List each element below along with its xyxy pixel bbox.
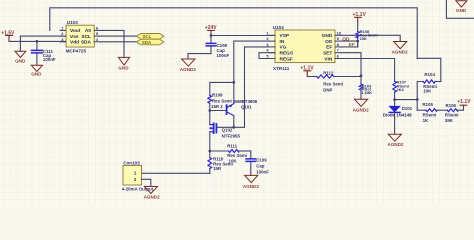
wire: +24V to U104 VSP pin1 <box>211 35 275 37</box>
wire: REGS/REGF tied <box>259 53 275 59</box>
wire: U104 IN pin2 down to Q101 emitter <box>234 41 269 104</box>
port SDA <box>137 39 165 45</box>
svg-text:NTF2955: NTF2955 <box>222 133 241 138</box>
wire: SDA pin4 to port <box>100 41 136 43</box>
svg-text:100nF: 100nF <box>43 57 56 62</box>
power port +1.1V (above R108) <box>353 12 367 21</box>
svg-text:GND: GND <box>15 58 26 63</box>
wire: U104 VG pin3 down to Q102 gate <box>216 47 269 127</box>
svg-text:Con103: Con103 <box>123 161 140 166</box>
junction IN/R109 <box>232 81 235 84</box>
wire: U103 Vout pin1 up and across top to right network <box>50 8 417 59</box>
svg-text:MCP4725: MCP4725 <box>66 49 87 54</box>
svg-text:Res Semi: Res Semi <box>323 82 343 87</box>
svg-text:100nF: 100nF <box>217 53 230 58</box>
wire: Q102 source from R109 node <box>209 111 211 125</box>
svg-text:VIN: VIN <box>324 56 333 62</box>
junction main chain at feedback <box>416 98 419 101</box>
svg-text:D101: D101 <box>402 106 413 111</box>
ground AGND2 (under Con103 pin2) <box>144 187 161 200</box>
power port +1.1V (right edge) <box>457 99 471 105</box>
capacitor C108 100nF <box>206 36 229 59</box>
junction node at C111 tap <box>36 40 39 43</box>
svg-text:Res Semi: Res Semi <box>212 98 232 103</box>
svg-text:REGS: REGS <box>280 51 294 57</box>
svg-text:IN: IN <box>280 39 285 45</box>
resistor R108 10K pullup <box>356 22 378 47</box>
port SCL <box>137 34 165 40</box>
svg-text:AGND2: AGND2 <box>180 67 197 72</box>
junction collector/gate wire <box>232 126 235 129</box>
svg-text:A0: A0 <box>85 28 91 34</box>
U103 pins right 6,5,4 <box>94 30 100 41</box>
svg-text:39K: 39K <box>445 118 454 123</box>
svg-text:1.65K: 1.65K <box>361 90 372 95</box>
U103 pins left 1,2,3 <box>60 30 66 41</box>
svg-text:1K: 1K <box>423 118 429 123</box>
svg-text:Vout: Vout <box>70 28 81 34</box>
svg-text:Vss: Vss <box>70 34 79 40</box>
wire: top right corner net <box>446 0 474 18</box>
wire: U-branch to R104 <box>417 58 441 81</box>
svg-text:10K: 10K <box>423 88 432 93</box>
wire: VIN pin6 down to R107 <box>341 59 395 82</box>
wire: base of Q101 <box>210 110 227 112</box>
ground GND (left, under Vss) <box>15 51 26 63</box>
svg-text:R111: R111 <box>227 144 238 149</box>
junction Q102 drain / R111 <box>208 150 211 153</box>
ground GND (top right) <box>456 0 467 13</box>
svg-text:R109: R109 <box>212 92 223 97</box>
ground AGND2 (under GND pin) <box>392 42 409 55</box>
svg-text:15R: 15R <box>213 166 222 171</box>
junction SET/R112 <box>360 74 363 77</box>
power port +1.1V (at R112) <box>300 66 314 77</box>
svg-text:VSP: VSP <box>280 33 290 39</box>
ground GND (under C111) <box>31 65 42 76</box>
svg-text:R112: R112 <box>323 70 334 75</box>
diode D101 1N4148 <box>383 100 413 135</box>
svg-text:U103: U103 <box>67 20 78 25</box>
transistor Q102 NTF2955 P-MOSFET <box>210 123 241 151</box>
connector Con103 <box>122 161 154 192</box>
wire: U104 GND pin10 to AGND2 <box>341 35 400 41</box>
capacitor C109 100nF <box>246 151 269 175</box>
ground AGND2 (under C108) <box>180 59 197 72</box>
svg-text:15R 2: 15R 2 <box>211 104 223 109</box>
svg-text:10: 10 <box>337 30 341 35</box>
svg-text:SET: SET <box>323 51 332 57</box>
op-amp U103 MCP4725 DAC body <box>66 20 95 53</box>
resistor R107 2K2 <box>393 80 409 100</box>
svg-text:Res Semi: Res Semi <box>227 153 247 158</box>
svg-text:RSemi: RSemi <box>445 112 459 117</box>
svg-text:EF: EF <box>326 45 332 51</box>
svg-text:7: 7 <box>337 48 339 53</box>
resistor R106 39K <box>445 103 464 123</box>
svg-text:SDA: SDA <box>142 40 152 45</box>
wire: SCL pin5 to port <box>100 35 136 37</box>
junction R109/base/Q102 <box>208 109 211 112</box>
svg-text:GND: GND <box>322 33 333 39</box>
svg-text:Diode 1N4148: Diode 1N4148 <box>383 113 412 118</box>
junction at C108 tap <box>210 34 213 37</box>
svg-text:SCL: SCL <box>143 34 152 39</box>
resistor R104 10K <box>417 72 441 110</box>
svg-text:R104: R104 <box>424 72 435 77</box>
wire: Con103 pin2 to AGND2 <box>142 179 151 186</box>
resistor R105 1K <box>417 102 447 123</box>
wire: R107 node to main chain <box>395 99 418 101</box>
wire: EF pin8 up to OD node <box>341 41 358 47</box>
svg-text:10K: 10K <box>360 36 367 41</box>
wire: A0 pin6 to GND drop <box>100 30 124 57</box>
wire: U103 Vss pin2 to GND drop <box>20 36 66 51</box>
wire: C108 to AGND2 jog <box>188 54 211 59</box>
svg-text:REGF: REGF <box>280 56 293 62</box>
resistor R111 10K <box>210 144 251 164</box>
svg-text:XTR111: XTR111 <box>273 66 290 71</box>
svg-text:VG: VG <box>280 45 287 51</box>
svg-text:DNP: DNP <box>323 87 332 92</box>
transistor Q101 MMBT3906 <box>227 99 258 127</box>
svg-text:C109: C109 <box>256 157 267 162</box>
svg-text:+1.1V: +1.1V <box>457 99 471 105</box>
svg-text:R106: R106 <box>446 103 457 108</box>
svg-text:EF: EF <box>349 42 355 48</box>
svg-text:AGND2: AGND2 <box>392 49 409 54</box>
wire: +1.5V rail to U103 Vdd pin3 <box>9 40 66 42</box>
junction R107/D101/feedback <box>393 98 396 101</box>
svg-text:MMBT3906: MMBT3906 <box>234 99 257 104</box>
svg-text:SCL: SCL <box>81 34 91 40</box>
capacitor C111 100nF <box>32 41 56 65</box>
svg-text:OD: OD <box>325 39 333 45</box>
power port +24V <box>205 25 217 35</box>
svg-text:R105: R105 <box>422 102 433 107</box>
svg-text:RSemi: RSemi <box>423 112 437 117</box>
power port +1.5V <box>1 31 15 42</box>
wire: R109 top branch <box>210 82 234 95</box>
ground AGND2 (under D101) <box>387 134 404 147</box>
wire: OD pin9 to R108 <box>341 40 358 42</box>
U104 pins left 1-5 <box>269 35 275 58</box>
resistor R109 15R <box>208 92 232 110</box>
svg-text:AGND2: AGND2 <box>243 184 260 189</box>
ground AGND2 (under R103) <box>353 99 370 112</box>
U104 pins right 10-6 <box>335 35 341 58</box>
wire: output row to Con103 pin1 <box>142 172 210 174</box>
svg-text:SDA: SDA <box>81 40 92 46</box>
svg-text:AGND2: AGND2 <box>144 194 161 199</box>
svg-text:OD: OD <box>342 36 350 42</box>
svg-text:Q101: Q101 <box>241 105 252 110</box>
svg-text:GND: GND <box>118 66 129 71</box>
svg-text:C108: C108 <box>217 43 228 48</box>
svg-text:Vdd: Vdd <box>70 40 79 46</box>
ground GND (under A0) <box>118 57 129 70</box>
resistor R110 15R <box>208 151 233 173</box>
svg-text:GND: GND <box>456 8 467 13</box>
svg-text:2K2: 2K2 <box>397 87 405 92</box>
svg-text:Cap: Cap <box>256 164 265 169</box>
svg-text:Q102: Q102 <box>222 128 233 133</box>
op-amp U104 XTR111 body <box>273 25 335 71</box>
wire: SET pin7 down to R103 <box>341 53 361 84</box>
resistor R103 RSet 1.65K <box>359 83 372 99</box>
svg-text:AGND2: AGND2 <box>387 142 404 147</box>
svg-text:AGND2: AGND2 <box>353 107 370 112</box>
svg-text:U104: U104 <box>273 25 284 30</box>
svg-text:100nF: 100nF <box>256 169 269 174</box>
junction OD/EF/R108 <box>356 40 359 43</box>
ground AGND2 (under C109) <box>243 175 260 189</box>
resistor R112 DNP <box>307 70 361 92</box>
svg-text:GND: GND <box>31 72 42 77</box>
